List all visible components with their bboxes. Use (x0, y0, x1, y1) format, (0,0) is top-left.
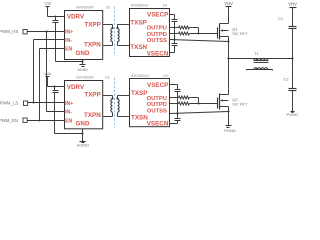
svg-text:U4: U4 (163, 4, 168, 8)
wire PWM_LS to IN+ (28, 102, 65, 104)
svg-text:OUTPU: OUTPU (147, 26, 167, 32)
wire PWM_HS to IN+ (28, 31, 65, 33)
svg-text:SiC FET: SiC FET (232, 31, 248, 36)
wire AGND2 feeder (bottom) (55, 133, 83, 135)
svg-text:SiC FET: SiC FET (232, 102, 248, 107)
capacitor Vdd bypass (top) (53, 17, 59, 62)
svg-text:U1: U1 (105, 76, 110, 80)
svg-text:OUTPD: OUTPD (147, 102, 167, 108)
wire VDRV (top) (48, 16, 65, 18)
capacitor OUTSS-VSECN (bottom) (175, 114, 181, 124)
svg-text:EN: EN (65, 119, 72, 125)
transformer primary winding (top) (111, 29, 113, 46)
capacitor OUTSS-VSECN (top) (172, 40, 178, 53)
svg-text:TXPP: TXPP (84, 21, 100, 28)
port PWM_LS (24, 101, 28, 105)
ground AGND (80, 65, 86, 67)
supply Vdd (top) (46, 7, 50, 17)
svg-text:VDRV: VDRV (67, 14, 85, 21)
svg-text:U3: U3 (106, 5, 111, 9)
wire VSECN (top) (170, 52, 175, 54)
svg-text:TXPP: TXPP (84, 92, 100, 99)
svg-text:PWM_EN: PWM_EN (0, 118, 18, 123)
wire TXSN (top) (118, 45, 130, 47)
svg-text:PGND: PGND (287, 112, 299, 117)
wire VSECN (bottom) (170, 123, 178, 125)
svg-text:OUTPD: OUTPD (147, 32, 167, 38)
capacitor VSECP-OUTSS (bottom) (175, 90, 181, 114)
capacitor C1 (289, 27, 297, 59)
resistor gate pull-up (bottom) (170, 96, 199, 104)
isolation barrier (top) (114, 7, 116, 57)
wire GND pin to AGND2 (bottom) (82, 129, 84, 142)
supply VHV (right) (290, 8, 297, 27)
svg-text:IN+: IN+ (65, 29, 73, 35)
transistor Q1 (SiC FET) (218, 24, 229, 40)
wire TXPN (top) (103, 45, 113, 47)
wire VSECP (bottom) (170, 85, 178, 90)
svg-text:AGND2: AGND2 (77, 143, 89, 147)
wire EN (top) (40, 49, 65, 121)
wire Q1 source to SW node (228, 37, 230, 95)
transformer primary winding (bottom) (111, 99, 113, 117)
svg-text:OUTSS: OUTSS (147, 38, 167, 44)
resistor gate pull-down (bottom) (170, 102, 190, 105)
svg-text:AHV85043: AHV85043 (131, 4, 148, 8)
wire GND pin to AGND (top) (82, 60, 84, 65)
svg-text:EN: EN (65, 47, 72, 53)
svg-text:TXSN: TXSN (130, 44, 147, 51)
ground PGND (under Q2) (226, 126, 232, 128)
svg-text:IN+: IN+ (65, 101, 73, 107)
ground PGND (right) (291, 112, 295, 113)
svg-text:AHV85000: AHV85000 (76, 76, 93, 80)
wire SW node to T1 (229, 58, 293, 60)
svg-text:C1: C1 (278, 16, 284, 21)
transformer secondary winding (bottom) (118, 96, 120, 117)
transformer T1 core (254, 61, 269, 63)
wire VDRV (bottom) (48, 86, 65, 88)
wire TXPP (bottom) (103, 96, 113, 99)
supply VHV (over Q1) (226, 7, 232, 24)
port PWM_EN (23, 118, 27, 122)
svg-text:GND: GND (76, 50, 90, 57)
svg-text:VSECN: VSECN (147, 50, 169, 57)
op-amp U3 (gate driver AHV85000, top) (65, 11, 103, 60)
svg-text:PGND: PGND (224, 128, 236, 133)
wire gate Q2 (190, 103, 218, 105)
resistor gate pull-down (top) (170, 32, 190, 35)
supply Vdd (bottom) (46, 77, 50, 87)
wire IN- (top) (34, 40, 65, 103)
wire OUTSS kelvin (top) (170, 40, 229, 42)
wire TXSN (bottom) (118, 116, 130, 118)
wire OUTSS kelvin (bottom) (170, 112, 229, 114)
ground AGND2 (80, 142, 86, 143)
svg-text:Vdd: Vdd (44, 72, 51, 76)
svg-text:C2: C2 (283, 77, 289, 82)
resistor gate pull-up (top) (170, 26, 199, 34)
wire PWM_EN to EN (28, 120, 65, 122)
svg-text:AHV85000: AHV85000 (76, 5, 93, 9)
svg-text:VHV: VHV (224, 1, 233, 6)
svg-text:TXSP: TXSP (131, 90, 147, 97)
wire TXSP (top) (118, 24, 130, 26)
capacitor Vdd bypass (bottom) (53, 87, 59, 134)
svg-text:TXSP: TXSP (130, 19, 146, 26)
svg-text:OUTSS: OUTSS (147, 108, 167, 114)
svg-text:VSECP: VSECP (147, 11, 168, 18)
svg-text:TXSN: TXSN (131, 115, 148, 122)
svg-text:U2: U2 (163, 74, 168, 78)
port PWM_HS (23, 30, 27, 34)
svg-text:AHV85043: AHV85043 (131, 74, 148, 78)
svg-text:VSECN: VSECN (147, 121, 169, 128)
wire TXPN (bottom) (103, 116, 113, 118)
svg-text:PWM_LS: PWM_LS (0, 101, 18, 106)
wire TXPP (top) (103, 25, 113, 29)
svg-text:VSECP: VSECP (147, 82, 168, 89)
wire right node down (292, 59, 294, 89)
wire AGND feeder (top) (56, 61, 83, 63)
transistor Q2 (SiC FET) (218, 94, 229, 110)
wire gate Q1 (190, 33, 218, 35)
op-amp U2 (isolated receiver AHV85043, bottom) (130, 79, 170, 127)
transformer T1 secondary (247, 68, 273, 71)
op-amp U4 (isolated receiver AHV85043, top) (130, 9, 170, 57)
svg-text:TXPN: TXPN (84, 42, 101, 49)
svg-text:IN-: IN- (65, 38, 72, 44)
transformer T1 primary (254, 59, 268, 61)
op-amp U1 (gate driver AHV85000, bottom) (65, 81, 103, 129)
svg-text:VDRV: VDRV (67, 84, 85, 91)
svg-text:AGND: AGND (78, 68, 89, 72)
svg-text:GND: GND (76, 121, 90, 128)
svg-text:TXPN: TXPN (84, 112, 101, 119)
svg-text:PWM_HS: PWM_HS (0, 29, 18, 34)
svg-text:Vdd: Vdd (44, 2, 51, 6)
svg-text:T1: T1 (254, 51, 259, 56)
wire PWM_HS to bottom IN- (47, 32, 65, 112)
transformer secondary winding (top) (118, 25, 120, 46)
isolation barrier (bottom) (114, 78, 116, 128)
wire TXSP (bottom) (118, 95, 130, 97)
wire Q2 source to PGND (228, 107, 230, 126)
svg-text:VHV: VHV (288, 2, 297, 7)
wire VSECP (top) (170, 15, 175, 20)
capacitor C2 (289, 89, 297, 112)
svg-text:IN-: IN- (65, 110, 72, 116)
capacitor VSECP-OUTSS (top) (172, 20, 178, 40)
